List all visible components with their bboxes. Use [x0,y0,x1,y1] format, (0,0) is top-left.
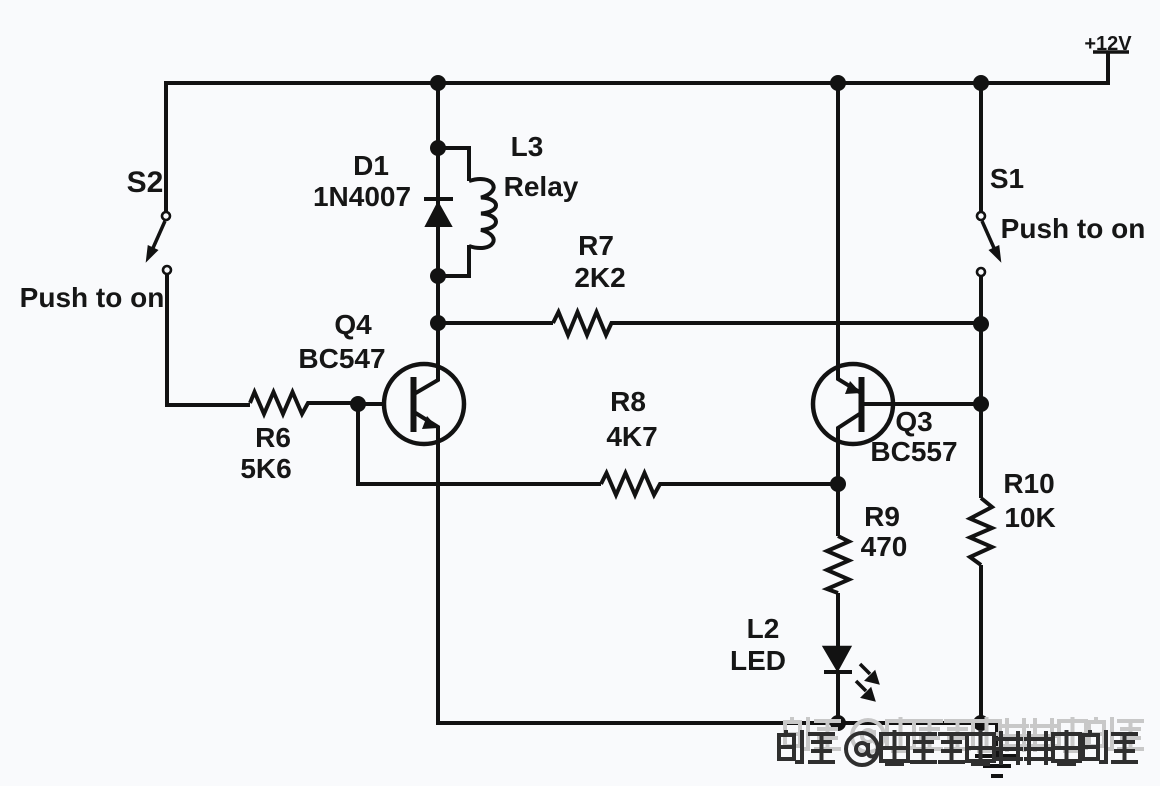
svg-text:Q3: Q3 [895,406,932,437]
svg-text:S2: S2 [127,166,164,199]
wire S2 lower [167,274,250,405]
transistor Q3 emitter arrow [845,381,861,394]
wire R9 top [836,484,840,536]
wire top rail [166,81,1108,85]
svg-text:R7: R7 [578,230,614,261]
transistor Q3 [813,364,893,444]
node rail R10 [973,715,989,731]
wire S1 upper [979,81,983,212]
inductor L3 relay coil [469,179,496,248]
svg-text:Q4: Q4 [334,309,372,340]
svg-text:BC557: BC557 [870,436,957,467]
transistor Q4 [384,364,464,444]
wire bottom rail [436,721,997,725]
resistor R8 [601,473,838,495]
resistor R7 [553,312,981,335]
resistor R10 [970,498,992,565]
node top S1 [973,75,989,91]
svg-text:L2: L2 [747,613,780,644]
switch S1 [977,212,1000,276]
ground [975,723,1019,776]
wire S2 upper [164,81,168,212]
wire S1 lower [979,276,983,498]
wire R7 left [438,321,553,325]
inductor L3 relay bracket bottom [438,245,469,276]
svg-text:+12V: +12V [1084,33,1132,55]
node rail LED [830,715,846,731]
svg-text:R8: R8 [610,386,646,417]
svg-text:Relay: Relay [504,171,579,202]
watermark light copy [785,717,1144,752]
node relay bottom [430,268,446,284]
node R7 left [430,315,446,331]
svg-text:Push to on: Push to on [1001,213,1146,244]
watermark dark copy [779,730,1138,765]
svg-text:R10: R10 [1003,468,1054,499]
wire Q4 base lead [358,402,385,406]
svg-text:LED: LED [730,645,786,676]
wire LED to rail [836,672,840,723]
node R7 right [973,316,989,332]
svg-text:R9: R9 [864,501,900,532]
svg-text:5K6: 5K6 [240,453,291,484]
led L2 light arrows [856,664,878,700]
node relay top [430,140,446,156]
wire R10 to bottom [979,565,983,723]
resistor R9 [827,536,849,593]
node top Q3 [830,75,846,91]
power +12V bar [1093,50,1129,54]
resistor R6 [250,392,358,414]
transistor Q4 emitter arrow [422,416,438,429]
svg-text:D1: D1 [353,150,389,181]
wire Q3 base lead [862,402,981,406]
node Q3 base [973,396,989,412]
node top D1 [430,75,446,91]
svg-text:1N4007: 1N4007 [313,181,411,212]
diode D1 [424,199,453,226]
svg-text:Push to on: Push to on [20,282,165,313]
power +12V stub [1106,52,1110,85]
wire R8 left [358,404,601,484]
svg-text:S1: S1 [990,163,1024,194]
node Q4 base [350,396,366,412]
switch S2 [147,212,171,274]
inductor L3 relay coil bracket [438,148,469,181]
svg-text:R6: R6 [255,422,291,453]
led L2 [824,647,852,672]
svg-text:2K2: 2K2 [574,262,625,293]
wire R9 to LED [836,593,840,650]
svg-text:4K7: 4K7 [606,421,657,452]
node R8 right [830,476,846,492]
wire center vertical (D1 branch) [436,81,440,328]
svg-text:470: 470 [861,531,908,562]
svg-text:10K: 10K [1004,502,1055,533]
svg-text:L3: L3 [511,131,544,162]
svg-text:BC547: BC547 [298,343,385,374]
